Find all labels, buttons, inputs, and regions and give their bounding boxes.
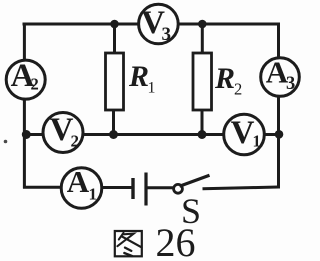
wire left vertical upper — [23, 23, 26, 61]
svg-text:R: R — [128, 60, 149, 93]
svg-text:A: A — [67, 164, 90, 199]
svg-text:3: 3 — [162, 24, 172, 45]
node junction top of R2 — [198, 20, 207, 29]
switch blade — [180, 175, 210, 186]
voltmeter V2 circle — [43, 113, 83, 153]
resistor R2 — [193, 53, 212, 110]
wire right vertical lower — [277, 97, 280, 189]
node junction top of R1 — [110, 20, 119, 29]
wire top-right segment — [179, 23, 281, 26]
svg-text:1: 1 — [89, 184, 98, 203]
svg-text:26: 26 — [156, 220, 196, 261]
ammeter A2 circle — [6, 60, 45, 99]
svg-text:2: 2 — [234, 80, 242, 99]
wire R1 branch top — [113, 24, 116, 53]
wire top-left segment — [23, 23, 139, 26]
voltmeter V3 circle — [139, 4, 179, 44]
node junction middle-left — [22, 130, 31, 139]
wire middle V2 to V1 — [84, 133, 225, 136]
svg-text:1: 1 — [253, 132, 261, 151]
node junction bottom of R2 — [198, 130, 207, 139]
wire right vertical upper — [277, 23, 280, 59]
svg-text:V: V — [231, 115, 255, 151]
switch pivot circle — [174, 184, 183, 193]
resistor R1 — [106, 53, 124, 110]
svg-text:1: 1 — [148, 80, 156, 97]
wire R1 branch bottom — [112, 110, 115, 135]
node junction middle-right — [275, 130, 284, 139]
wire R2 branch top — [201, 24, 204, 53]
svg-text:R: R — [214, 62, 235, 95]
ammeter A1 circle — [61, 168, 102, 209]
svg-text:2: 2 — [31, 75, 39, 94]
node junction bottom of R1 — [109, 130, 118, 139]
wire middle right stub — [265, 133, 279, 136]
wire R2 branch bottom — [201, 110, 204, 135]
svg-text:2: 2 — [71, 131, 80, 150]
wire bottom left to A1 — [23, 186, 62, 189]
stray ink dot — [4, 140, 8, 144]
voltmeter V1 circle — [224, 114, 265, 155]
battery short plate (negative) — [131, 178, 134, 199]
ammeter A3 circle — [261, 58, 300, 97]
battery long plate (positive) — [144, 173, 147, 206]
wire battery to switch — [148, 186, 174, 189]
wire middle left stub — [24, 133, 43, 136]
wire switch to bottom-right corner — [203, 187, 279, 189]
svg-text:3: 3 — [286, 74, 295, 94]
wire A1 to battery — [102, 186, 132, 189]
caption glyph 图 (drawn, no CJK font available) — [115, 231, 142, 256]
wire left vertical lower — [23, 99, 26, 189]
